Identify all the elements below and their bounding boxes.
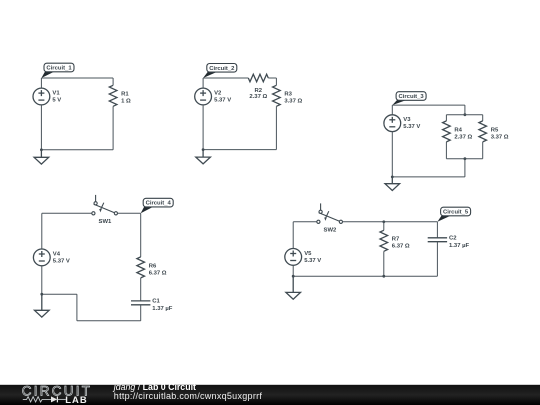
svg-text:1.37 µF: 1.37 µF: [152, 306, 172, 312]
wire top Circuit_1: [41, 77, 113, 79]
svg-text:Circuit_2: Circuit_2: [209, 66, 235, 72]
resistor R4: [443, 121, 451, 142]
wire bottom Circuit_5: [293, 275, 437, 277]
svg-text:6.37 Ω: 6.37 Ω: [392, 244, 410, 250]
voltage source V1: [33, 88, 50, 105]
wire R4 bottom lead: [445, 142, 447, 159]
wire V5 top lead: [292, 222, 294, 249]
ground Circuit_4: [35, 294, 50, 317]
svg-text:5.37 V: 5.37 V: [403, 124, 420, 130]
svg-text:Circuit_5: Circuit_5: [443, 210, 469, 216]
svg-text:Circuit_3: Circuit_3: [398, 94, 424, 100]
wire parallel top rail: [446, 114, 482, 116]
svg-text:R7: R7: [392, 237, 400, 243]
wire V4 bottom lead: [41, 266, 43, 294]
wire V2 bottom lead: [202, 105, 204, 150]
switch SW1: [92, 195, 118, 215]
svg-text:V3: V3: [403, 117, 411, 123]
capacitor C1: [131, 301, 150, 305]
wire top left Circuit_2: [203, 77, 248, 79]
svg-text:V2: V2: [214, 90, 222, 96]
node label Circuit_4: [141, 198, 174, 213]
svg-text:V1: V1: [52, 90, 60, 96]
node label Circuit_1: [41, 63, 74, 78]
resistor R3: [273, 85, 281, 106]
wire R7 bottom lead: [383, 251, 385, 276]
svg-text:2.37 Ω: 2.37 Ω: [454, 134, 472, 140]
wire top right Circuit_5: [343, 221, 438, 223]
wire top left Circuit_5: [293, 221, 317, 223]
resistor R6: [137, 257, 145, 278]
svg-text:R1: R1: [121, 92, 129, 98]
svg-text:5 V: 5 V: [52, 97, 61, 103]
junction R7 bottom: [382, 275, 385, 278]
node label Circuit_3: [392, 92, 426, 105]
wire R5 top lead: [482, 115, 484, 121]
svg-text:3.37 Ω: 3.37 Ω: [284, 99, 302, 105]
wire V2 top lead: [202, 78, 204, 88]
wire V4 top lead: [41, 213, 43, 249]
wire R6 to C1: [140, 278, 142, 301]
svg-text:C2: C2: [449, 236, 457, 242]
svg-text:Circuit_1: Circuit_1: [46, 66, 72, 72]
wire R1 top lead: [112, 78, 114, 85]
wire R7 top lead: [383, 222, 385, 231]
svg-text:1.37 µF: 1.37 µF: [449, 243, 469, 249]
svg-text:SW1: SW1: [99, 219, 112, 225]
svg-text:V4: V4: [53, 251, 61, 257]
junction Circuit_3 ground node: [391, 176, 394, 179]
junction Circuit_5 ground node: [292, 275, 295, 278]
svg-text:5.37 V: 5.37 V: [304, 258, 321, 264]
junction parallel bottom node: [464, 157, 467, 160]
node label Circuit_2: [203, 64, 237, 79]
svg-text:R6: R6: [149, 263, 157, 269]
wire bottom Circuit_3: [392, 176, 465, 178]
switch SW2: [317, 203, 343, 223]
wire top right Circuit_4: [118, 212, 141, 214]
svg-text:5.37 V: 5.37 V: [214, 97, 231, 103]
resistor R1: [109, 85, 117, 106]
wire R5 bottom lead: [482, 142, 484, 159]
svg-text:R2: R2: [255, 88, 263, 94]
svg-text:1 Ω: 1 Ω: [121, 99, 131, 105]
resistor R7: [380, 230, 388, 251]
junction Circuit_1 ground node: [40, 148, 43, 151]
wire bottom Circuit_2: [203, 149, 276, 151]
voltage source V3: [384, 115, 401, 132]
node label Circuit_5: [437, 207, 470, 222]
wire C1 bottom lead: [140, 305, 142, 321]
wire R4 top lead: [445, 115, 447, 121]
wire bottom Circuit_1: [41, 149, 113, 151]
ground Circuit_5: [286, 276, 301, 299]
svg-text:3.37 Ω: 3.37 Ω: [491, 134, 509, 140]
svg-text:5.37 V: 5.37 V: [53, 258, 70, 264]
svg-text:R3: R3: [284, 92, 292, 98]
wire from parallel bottom node: [464, 159, 466, 177]
wire top Circuit_3: [392, 104, 465, 106]
svg-text:2.37 Ω: 2.37 Ω: [249, 94, 267, 100]
resistor R2: [248, 74, 268, 82]
junction parallel top node: [464, 113, 467, 116]
wire V5 bottom lead: [292, 265, 294, 276]
svg-text:Circuit_4: Circuit_4: [146, 201, 172, 207]
wire C2 top lead: [436, 222, 438, 238]
svg-text:V5: V5: [304, 251, 312, 257]
wire R3 bottom lead: [275, 106, 277, 149]
wire top right Circuit_2: [268, 77, 276, 79]
svg-text:http://circuitlab.com/cwnxq5ux: http://circuitlab.com/cwnxq5uxgprrf: [114, 391, 263, 401]
svg-text:LAB: LAB: [65, 394, 88, 405]
wire C2 bottom lead: [436, 242, 438, 277]
wire bottom left Circuit_4: [42, 293, 77, 295]
svg-text:R5: R5: [491, 127, 499, 133]
voltage source V4: [33, 249, 50, 266]
ground Circuit_2: [196, 150, 211, 164]
svg-text:SW2: SW2: [324, 228, 337, 234]
junction R7 top: [382, 220, 385, 223]
resistor R5: [479, 121, 487, 142]
voltage source V5: [285, 249, 302, 266]
wire R3 top lead: [275, 78, 277, 85]
wire R1 bottom lead: [112, 106, 114, 150]
wire bottom Circuit_4: [77, 320, 141, 322]
voltage source V2: [195, 88, 212, 105]
svg-text:6.37 Ω: 6.37 Ω: [149, 270, 167, 276]
wire bottom vertical Circuit_4: [76, 294, 78, 321]
capacitor C2: [428, 238, 447, 242]
wire V1 bottom lead: [40, 105, 42, 150]
wire V3 top lead: [391, 105, 393, 115]
junction Circuit_2 ground node: [202, 148, 205, 151]
wire to parallel top node: [464, 105, 466, 115]
ground Circuit_3: [385, 177, 400, 191]
ground Circuit_1: [34, 150, 49, 164]
junction Circuit_4 ground node: [40, 293, 43, 296]
wire parallel bottom rail: [446, 158, 482, 160]
wire top left Circuit_4: [42, 212, 92, 214]
CircuitLab logo: [22, 384, 92, 405]
svg-text:R4: R4: [454, 127, 462, 133]
wire R6 top lead: [140, 213, 142, 257]
wire V1 top lead: [40, 78, 42, 88]
wire V3 bottom lead: [391, 132, 393, 177]
svg-text:C1: C1: [152, 299, 160, 305]
